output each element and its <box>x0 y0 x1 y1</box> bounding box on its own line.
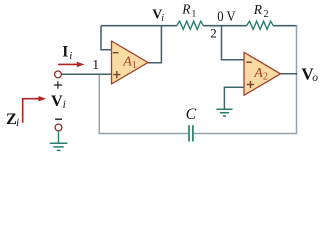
capacitor C <box>188 125 190 141</box>
svg-text:i: i <box>16 117 19 129</box>
resistor R2 <box>247 21 274 29</box>
svg-text:i: i <box>69 50 72 62</box>
svg-text:2: 2 <box>263 72 268 83</box>
ground (A2) <box>216 109 232 116</box>
svg-text:A: A <box>122 54 132 69</box>
input terminal (lower) <box>55 124 62 131</box>
current Ii arrow <box>58 63 79 65</box>
svg-text:1: 1 <box>192 9 197 19</box>
svg-text:I: I <box>62 44 68 61</box>
impedance Zi arrow <box>23 99 41 123</box>
wire: stem from lower terminal to ground <box>58 131 60 143</box>
svg-text:o: o <box>312 72 318 84</box>
input terminal (upper) <box>55 71 62 78</box>
wire: A2 output lead to right rail <box>280 73 297 75</box>
svg-text:2: 2 <box>210 25 217 40</box>
op-amp A2 noninverting input mark <box>247 81 254 88</box>
svg-text:1: 1 <box>132 60 137 71</box>
wire: bottom rail right part from capacitor <box>194 133 297 135</box>
svg-text:i: i <box>63 99 66 111</box>
svg-text:R: R <box>181 2 190 17</box>
op-amp A2 <box>244 52 281 95</box>
op-amp A2 inverting input mark <box>246 61 252 63</box>
svg-text:1: 1 <box>92 57 99 72</box>
ground (source) <box>50 143 68 150</box>
op-amp A1 inverting input mark <box>113 52 119 54</box>
wire: top rail segment from R1 to R2 through node 2 <box>203 25 246 27</box>
svg-text:0 V: 0 V <box>217 9 236 25</box>
wire: A1 output lead and riser up to top rail <box>148 26 162 63</box>
svg-text:C: C <box>186 106 197 123</box>
wire: A2 noninverting input lead to ground <box>224 87 244 109</box>
source minus sign <box>55 118 62 120</box>
resistor R1 <box>177 21 204 29</box>
wire: input wire from terminal to A1 noninverting input <box>61 73 112 75</box>
wire: branch vertical from + input wire down to bottom rail <box>98 74 100 135</box>
wire: bottom rail left part to capacitor <box>99 133 189 135</box>
svg-text:V: V <box>51 92 63 110</box>
op-amp A1 noninverting input mark <box>113 71 120 78</box>
source plus sign <box>54 81 62 89</box>
wire: node 2 drop and lead to A2 inverting input <box>222 26 245 60</box>
wire: A1 feedback loop left vertical and lead to inverting input <box>101 26 112 50</box>
svg-text:R: R <box>253 2 262 17</box>
svg-text:2: 2 <box>264 9 269 20</box>
svg-text:A: A <box>253 66 263 81</box>
wire: right rail down to bottom rail <box>296 25 298 133</box>
svg-text:i: i <box>161 13 164 24</box>
wire: top rail segment from R2 to right corner <box>273 25 297 27</box>
wire: top rail segment from feedback corner to R1 <box>101 25 177 27</box>
op-amp A1 <box>112 41 149 84</box>
